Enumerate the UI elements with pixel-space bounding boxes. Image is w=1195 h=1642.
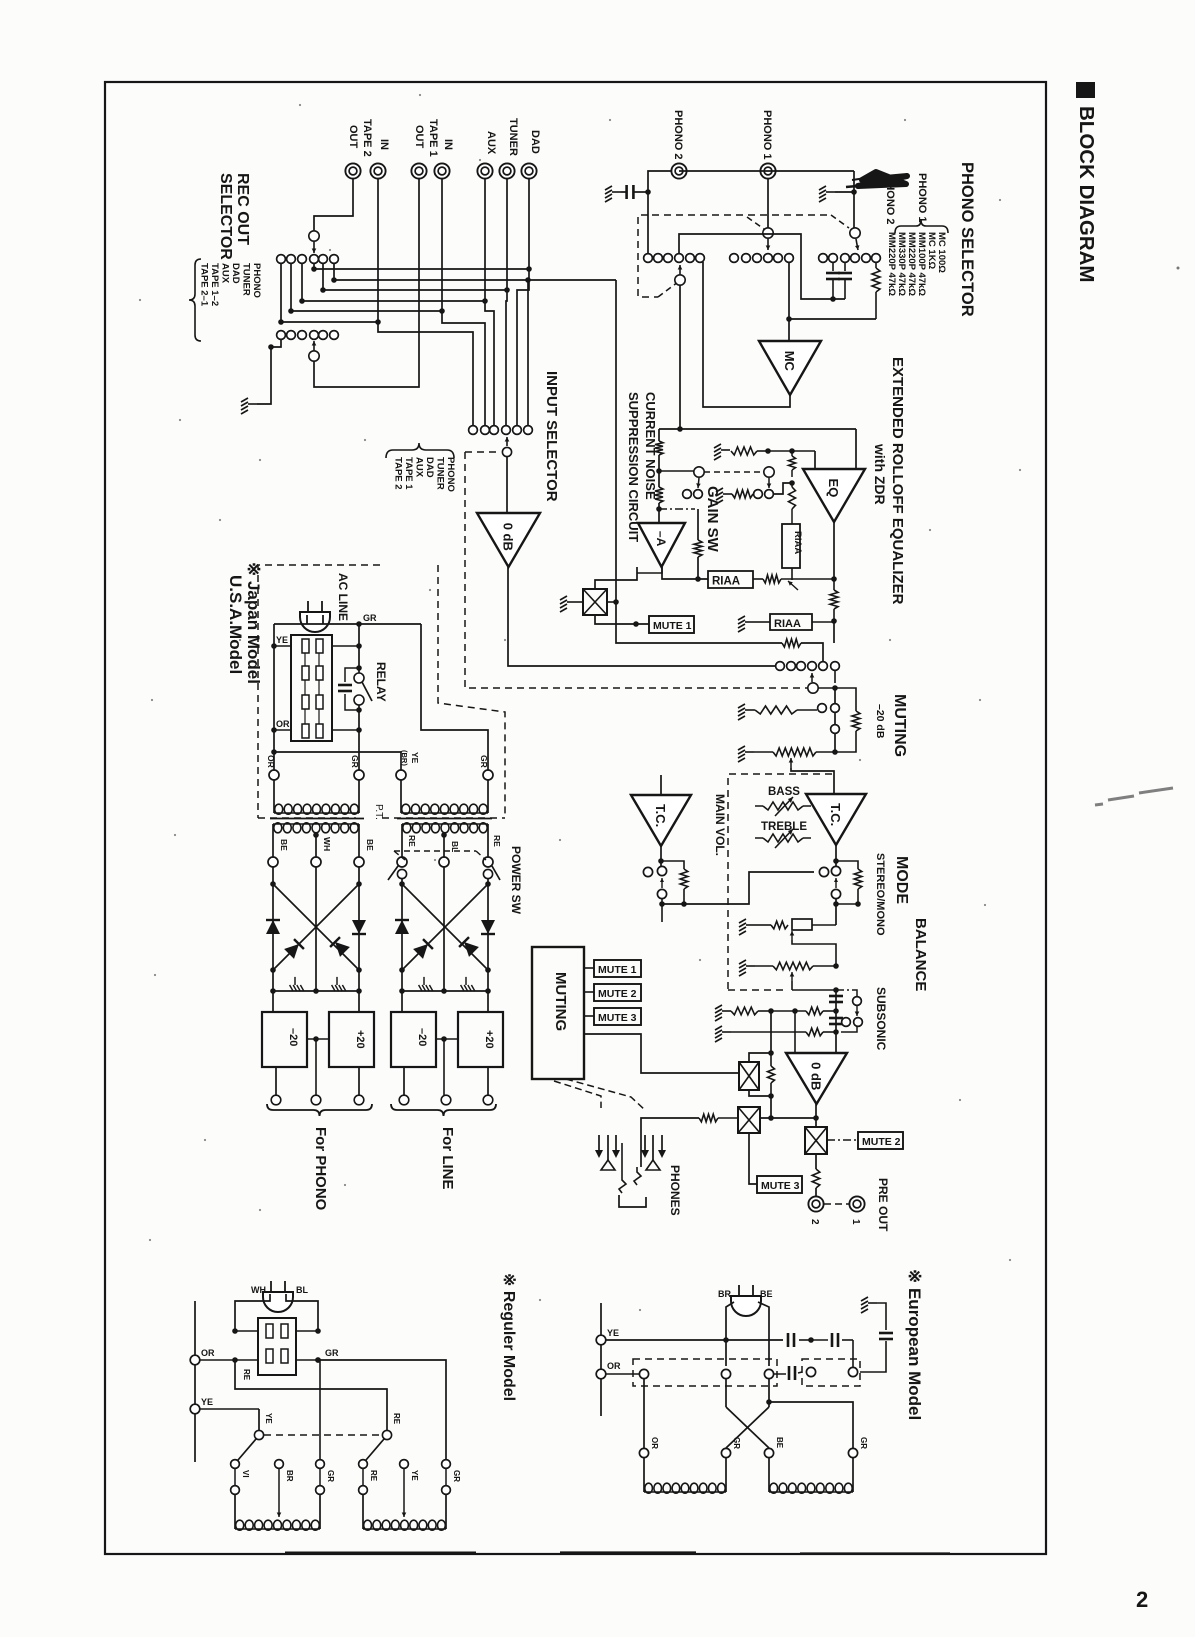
transformer secondary right — [402, 823, 488, 825]
dashed wiper links phono selector — [658, 282, 678, 297]
wire riaa pot — [753, 578, 763, 580]
rec out bus DAD (y290) — [322, 263, 324, 290]
svg-text:OUT: OUT — [347, 125, 359, 149]
svg-text:AUX: AUX — [220, 263, 231, 284]
svg-text:–20: –20 — [416, 1028, 428, 1046]
svg-text:GR: GR — [452, 1470, 461, 1482]
wire PHONO contact drop — [527, 280, 529, 426]
svg-text:For PHONO: For PHONO — [312, 1127, 329, 1211]
regulator -20 (phono) — [262, 1012, 307, 1067]
ground riaa2 — [738, 616, 754, 632]
noise circuit top rail — [659, 428, 856, 430]
right AC vertical (relay) — [358, 624, 360, 673]
svg-text:TAPE 2–1: TAPE 2–1 — [199, 263, 210, 307]
wire bus to contact — [801, 643, 823, 661]
ground phono input — [605, 186, 621, 202]
MUTE 1 small box — [584, 967, 594, 969]
supply outputs right — [403, 1067, 405, 1095]
wire muting node down — [834, 670, 836, 683]
gain sw contacts right pair — [754, 490, 763, 499]
dash-dot link to -A — [659, 508, 695, 510]
frame bottom scan thickening — [285, 1552, 476, 1555]
svg-text:MUTE 3: MUTE 3 — [761, 1180, 800, 1192]
wire balance wiper 1 — [791, 931, 793, 940]
ground rec out — [241, 398, 257, 414]
resistor relay A — [768, 1066, 775, 1083]
pot wiper main vol — [790, 758, 792, 768]
wire relay B to MUTE3 — [749, 1133, 757, 1184]
PRE OUT jack 1 — [849, 1196, 864, 1211]
wire EQ line down — [833, 621, 835, 643]
capacitor eu 3 — [774, 1373, 786, 1375]
svg-text:PHONO 1: PHONO 1 — [916, 173, 928, 223]
ground gain sw upper — [714, 444, 730, 460]
mode bus right — [833, 901, 839, 907]
resistor noise 1 — [658, 429, 660, 441]
regulator link left — [307, 1038, 329, 1040]
svg-text:SUBSONIC: SUBSONIC — [874, 987, 888, 1051]
svg-text:For LINE: For LINE — [439, 1127, 456, 1190]
svg-text:GR: GR — [859, 1437, 868, 1449]
pot wiper arrow riaa — [788, 581, 798, 590]
input selector wiper — [502, 447, 511, 456]
eu coil left — [643, 1458, 645, 1492]
svg-text:OUT: OUT — [413, 125, 425, 149]
svg-text:BASS: BASS — [768, 786, 800, 798]
svg-text:BE: BE — [760, 1289, 773, 1299]
svg-text:RIAA: RIAA — [774, 618, 801, 630]
AC plug european — [731, 1285, 761, 1316]
svg-text:SELECTOR: SELECTOR — [217, 173, 234, 260]
resistor balance 1 — [771, 921, 788, 929]
rec out bus TUNER (y280) long to phono wiper — [333, 263, 335, 280]
svg-text:RE: RE — [407, 835, 417, 847]
rec out bus TAPE1 (y311) — [290, 263, 292, 311]
relay contacts — [354, 673, 364, 683]
svg-text:PHONO: PHONO — [445, 457, 456, 492]
input jack AUX — [477, 163, 492, 178]
op-amp MC head amp — [759, 341, 821, 395]
wires to flat amp — [770, 1011, 772, 1053]
MUTE 3 box right — [757, 1176, 802, 1193]
left rail european — [600, 1303, 602, 1416]
svg-text:OR: OR — [650, 1437, 659, 1449]
wire buffer output long line — [508, 567, 776, 666]
transformer secondary left — [273, 823, 359, 825]
svg-text:(BR): (BR) — [400, 750, 409, 766]
op-amp -A — [638, 523, 685, 567]
ground balance 2 — [739, 960, 755, 976]
resistor pre out — [815, 1154, 817, 1169]
svg-text:MC: MC — [782, 351, 797, 372]
wire wiper to node — [818, 687, 835, 689]
RIAA box 2 — [770, 614, 812, 630]
ground mute branch 2 (volume pot) — [738, 746, 754, 762]
resistor phones feed — [699, 1114, 718, 1122]
svg-text:TAPE 1: TAPE 1 — [403, 457, 414, 490]
input jack TAPE1 IN — [434, 163, 449, 178]
wire phono2 drop left — [648, 171, 671, 253]
eu wire OR down — [643, 1379, 645, 1453]
svg-text:RE: RE — [242, 1369, 251, 1381]
svg-text:MM220P 47kΩ: MM220P 47kΩ — [886, 232, 897, 296]
svg-text:※ Reguler Model: ※ Reguler Model — [500, 1273, 517, 1401]
svg-text:MODE: MODE — [893, 856, 910, 904]
ground european — [861, 1297, 877, 1313]
svg-text:TAPE 2: TAPE 2 — [361, 119, 373, 157]
wire GR long — [421, 624, 488, 775]
supply outputs left — [275, 1067, 277, 1095]
resistor 47k phono load — [875, 262, 877, 268]
scan speckles — [139, 299, 141, 301]
ground subsonic 1 — [715, 1005, 731, 1021]
reguler coil right — [362, 1495, 364, 1529]
muting relay box (crossed) — [583, 589, 607, 615]
svg-text:IN: IN — [378, 139, 390, 150]
wire GR3 up — [319, 1360, 321, 1459]
contact BR — [275, 1460, 284, 1469]
rec out selector bottom contact row — [277, 331, 286, 340]
YE terminal — [190, 1404, 200, 1414]
svg-text:MUTING: MUTING — [552, 972, 569, 1031]
input jack TAPE1 OUT — [411, 163, 426, 178]
mode contacts right — [819, 867, 828, 876]
mode bus left — [659, 901, 665, 907]
svg-text:RE: RE — [369, 1470, 378, 1482]
svg-text:RELAY: RELAY — [374, 662, 388, 702]
svg-text:GR: GR — [363, 613, 377, 623]
diode bridge right (line supply) — [401, 879, 403, 884]
capacitor MM load 1 — [832, 262, 834, 271]
svg-text:OR: OR — [266, 755, 276, 768]
wire EQ output — [833, 522, 835, 579]
svg-text:PHONO 2: PHONO 2 — [672, 110, 684, 160]
MUTE 2 box — [858, 1132, 903, 1149]
AC plug reguler — [263, 1281, 293, 1312]
wire MUTING box feed — [584, 1034, 739, 1073]
svg-text:YE: YE — [276, 635, 288, 645]
svg-text:PRE OUT: PRE OUT — [876, 1178, 890, 1232]
AC plug japan — [300, 601, 330, 632]
subsonic right branch joiner — [841, 1027, 857, 1032]
RE switch — [382, 1430, 391, 1439]
wire -A apex to loop — [637, 567, 662, 573]
wire TAPE2 IN drop — [378, 179, 473, 426]
svg-text:MUTING: MUTING — [891, 694, 908, 757]
svg-text:BLOCK DIAGRAM: BLOCK DIAGRAM — [1075, 106, 1098, 283]
power switch right — [483, 869, 492, 878]
phones contacts — [598, 1135, 600, 1152]
svg-text:T.C.: T.C. — [828, 803, 843, 826]
phono selector contact group 2 — [730, 254, 739, 263]
svg-text:GR: GR — [350, 755, 360, 768]
TC right output node — [835, 845, 837, 867]
rec out selector wiper (bottom) — [309, 351, 319, 361]
left AC vertical — [273, 624, 275, 775]
MUTE 1 box — [649, 616, 694, 633]
capacitor phono input — [625, 185, 628, 199]
contact VI — [231, 1460, 240, 1469]
svg-text:OR: OR — [201, 1348, 215, 1358]
svg-text:GAIN SW: GAIN SW — [704, 486, 721, 553]
wire bottom row to ground — [271, 339, 281, 347]
muting contact row — [776, 662, 785, 671]
ground phono right — [819, 186, 835, 202]
regulator -20 (line) — [391, 1012, 436, 1067]
svg-text:AUX: AUX — [485, 131, 497, 155]
op-amp T.C. left — [660, 775, 662, 795]
annotation scribble (cartridge arrow) — [858, 172, 907, 186]
eu crossover — [725, 1379, 727, 1407]
svg-text:T.C.: T.C. — [653, 804, 668, 827]
resistor mode right — [836, 861, 858, 869]
resistor feedback -A — [697, 509, 699, 540]
svg-text:MUTE 3: MUTE 3 — [598, 1012, 637, 1024]
ground mute branch 1 — [738, 704, 754, 720]
muting relay A (crossed box) — [739, 1062, 759, 1090]
pencil smudge — [1095, 788, 1173, 805]
dashed switch link reguler — [264, 1434, 382, 1436]
svg-text:GR: GR — [325, 1348, 339, 1358]
rec out bus AUX (y301) — [301, 263, 303, 301]
OR terminal european — [596, 1369, 606, 1379]
resistor subsonic mid — [771, 1010, 806, 1012]
input jack TAPE2 IN — [370, 163, 385, 178]
regulator +20 (phono) — [329, 1012, 374, 1067]
regulator link right — [436, 1038, 458, 1040]
AC wires top — [274, 623, 421, 625]
phono selector contact group 1 — [644, 254, 653, 263]
brace cartridge list — [895, 220, 948, 233]
dashed phones link — [554, 1081, 601, 1108]
rec out bus TAPE2 (y322) — [280, 263, 282, 322]
capacitor MM load 2 — [844, 262, 846, 271]
wire -A out to RIAA box1 — [662, 567, 708, 579]
muting relay B (crossed box) — [738, 1107, 760, 1133]
eu box2 contacts — [806, 1367, 815, 1376]
frame border — [105, 82, 1046, 1554]
svg-text:GR: GR — [326, 1470, 335, 1482]
contact GR3 — [316, 1460, 325, 1469]
phono jack bus wire — [679, 170, 854, 172]
svg-text:INPUT SELECTOR: INPUT SELECTOR — [543, 371, 560, 502]
gain sw contacts left pair — [683, 490, 692, 499]
phono selector wiper PHONO1 — [763, 228, 773, 238]
YE switch — [258, 1409, 260, 1430]
ground gain sw lower — [716, 488, 732, 504]
svg-text:SUPPRESSION CIRCUIT: SUPPRESSION CIRCUIT — [626, 392, 641, 542]
svg-text:BE: BE — [279, 839, 289, 851]
diode bridge left (phono supply) — [272, 867, 274, 884]
resistor subsonic 2 — [806, 1028, 823, 1036]
contact GR4 — [442, 1460, 451, 1469]
dashed link input selector — [465, 451, 501, 453]
wire phono right drop — [853, 171, 855, 228]
svg-text:with ZDR: with ZDR — [872, 443, 888, 505]
input jack TUNER — [499, 163, 514, 178]
wire relay right to bus — [607, 601, 616, 603]
input jack PHONO1 — [760, 163, 775, 178]
wire MC amp input — [788, 262, 790, 341]
dashed selector link — [465, 452, 808, 688]
svg-text:BL: BL — [296, 1285, 308, 1295]
svg-text:AUX: AUX — [414, 457, 425, 478]
svg-text:REC OUT: REC OUT — [234, 173, 251, 245]
resistor mode left — [661, 861, 684, 869]
op-amp 0dB flat amp — [786, 1053, 847, 1104]
plug wires european — [726, 1302, 734, 1366]
PRE OUT jack 2 — [808, 1196, 823, 1211]
MUTE 2 small box — [584, 991, 594, 993]
svg-text:–20: –20 — [287, 1028, 299, 1046]
resistor -20db — [835, 688, 856, 711]
wire AUX drop — [485, 179, 494, 426]
svg-text:U.S.A.Model: U.S.A.Model — [226, 575, 245, 674]
svg-text:PHONO SELECTOR: PHONO SELECTOR — [958, 162, 976, 317]
phono selector wiper MC/MM (left) — [675, 275, 685, 285]
resistor EQ fb — [830, 590, 838, 609]
contact RE2 — [359, 1460, 368, 1469]
wire rec-out bottom wiper to TAPE1 OUT jack — [314, 179, 419, 387]
svg-text:1: 1 — [850, 1219, 861, 1225]
dashed box MAIN VOL — [728, 774, 834, 989]
subsonic switch top — [829, 995, 843, 998]
eu coil right — [768, 1458, 770, 1492]
svg-text:MUTE 2: MUTE 2 — [862, 1136, 901, 1148]
svg-text:BE: BE — [775, 1437, 784, 1449]
TC left output node — [660, 846, 662, 867]
svg-text:TAPE 1–2: TAPE 1–2 — [209, 263, 220, 306]
svg-text:BALANCE: BALANCE — [912, 918, 929, 991]
wire MC/MM wiper down — [679, 285, 681, 429]
wire subsonic node down — [835, 990, 837, 1053]
wire relay top loop — [595, 567, 637, 589]
wire DAD drop — [517, 179, 529, 426]
phono selector wiper PHONO2 — [850, 228, 860, 238]
svg-text:※ Japan Model: ※ Japan Model — [244, 562, 263, 684]
transformer primary right — [400, 780, 402, 813]
input selector contact row — [469, 426, 478, 435]
secondary terminals left — [268, 857, 278, 867]
svg-text:OR: OR — [276, 719, 290, 729]
transformer core left — [270, 818, 364, 820]
svg-text:IN: IN — [442, 139, 454, 150]
svg-text:MAIN VOL.: MAIN VOL. — [713, 794, 727, 856]
MUTING control box — [532, 947, 584, 1079]
capacitor eu 2 — [811, 1339, 828, 1341]
svg-text:※ European Model: ※ European Model — [905, 1269, 924, 1420]
wire balance wiper 2 — [791, 972, 793, 981]
input jack DAD — [521, 163, 536, 178]
svg-text:TUNER: TUNER — [435, 457, 446, 490]
gain sw wiper left — [659, 470, 694, 472]
dash link preout — [824, 1203, 849, 1205]
wire mm routing upper — [679, 234, 845, 299]
dashed box phono selector — [638, 215, 658, 297]
op-amp 0dB input buffer — [477, 513, 540, 567]
MUTE 3 small box — [584, 1015, 594, 1017]
svg-text:PHONO 1: PHONO 1 — [761, 110, 773, 160]
svg-text:PHONES: PHONES — [668, 1165, 682, 1216]
muting contacts pair — [818, 704, 827, 713]
svg-text:–A: –A — [654, 531, 668, 547]
svg-text:YE: YE — [410, 1470, 419, 1481]
power switch left — [397, 869, 406, 878]
wire relay A bottom — [749, 1090, 771, 1118]
wire TAPE1 IN drop — [442, 179, 485, 426]
brace for phono — [267, 1104, 372, 1116]
svg-text:YE: YE — [201, 1397, 213, 1407]
svg-text:0 dB: 0 dB — [501, 523, 516, 551]
rec out selector wiper (top) — [309, 231, 319, 241]
brace rec out source list — [189, 259, 201, 341]
wire flat amp out — [815, 1104, 817, 1127]
RIAA network box vertical — [782, 524, 800, 568]
contact YE2 — [400, 1460, 409, 1469]
input jack TAPE2 OUT — [345, 163, 360, 178]
svg-text:CURRENT NOISE: CURRENT NOISE — [643, 392, 658, 500]
phono bus vertical — [616, 280, 782, 643]
op-amp EQ — [803, 469, 865, 522]
wire eu caps to box2 — [852, 1340, 854, 1367]
svg-text:RIAA: RIAA — [712, 576, 740, 588]
OR terminal — [190, 1355, 200, 1365]
svg-text:0 dB: 0 dB — [809, 1062, 824, 1090]
svg-text:RIAA: RIAA — [792, 531, 803, 554]
dashed box japan model — [258, 565, 380, 818]
headphone jack symbol — [641, 1118, 699, 1167]
svg-text:RE: RE — [492, 835, 502, 847]
svg-text:2: 2 — [809, 1219, 820, 1225]
resistor gain set — [789, 487, 796, 509]
svg-text:DAD: DAD — [424, 457, 435, 478]
wire TUNER drop — [506, 179, 507, 426]
wire balance link — [792, 940, 836, 966]
YE line european — [606, 1339, 783, 1341]
eu box1 contacts — [639, 1369, 648, 1378]
muting wiper — [808, 683, 818, 693]
svg-text:TUNER: TUNER — [507, 118, 519, 156]
svg-text:TAPE 1: TAPE 1 — [427, 119, 439, 157]
wire relay B right — [760, 1117, 816, 1119]
dashed mainvol bottom — [728, 989, 788, 991]
svg-text:TREBLE: TREBLE — [761, 821, 807, 833]
svg-text:YE: YE — [410, 752, 420, 764]
svg-text:BR: BR — [718, 1289, 731, 1299]
dash link MUTE2 — [827, 1139, 858, 1141]
brace for line — [391, 1104, 496, 1116]
svg-text:BR: BR — [285, 1470, 294, 1482]
wire YE(BR) — [274, 752, 401, 775]
gain sw wiper right — [764, 467, 774, 477]
eu wire BE branch — [769, 1402, 853, 1453]
svg-text:EQ: EQ — [826, 479, 841, 498]
brace input source list — [386, 443, 454, 458]
svg-text:TUNER: TUNER — [241, 263, 252, 296]
svg-text:BE: BE — [365, 839, 375, 851]
wire riaa2 to EQ line — [812, 621, 834, 623]
ground muting relay — [560, 596, 576, 612]
input jack PHONO2 — [671, 163, 686, 178]
resistor noise 2 — [655, 487, 663, 503]
selector row wires — [235, 1330, 258, 1332]
ground subsonic 2 — [715, 1026, 731, 1042]
resistor gain upper — [789, 456, 796, 470]
resistor phono bus — [782, 639, 801, 647]
dashed box eu 2 — [802, 1359, 860, 1386]
svg-text:GR: GR — [479, 755, 489, 768]
rec out bus PHONO (y269) — [313, 263, 315, 269]
